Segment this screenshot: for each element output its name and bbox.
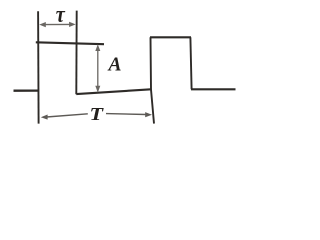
svg-text:τ: τ [56, 2, 66, 28]
dimension T: right arrowhead [145, 112, 152, 117]
dimension T: left shaft [47, 114, 88, 117]
dimension A: top arrowhead [95, 44, 100, 51]
wire: top of pulse 2 [150, 36, 191, 38]
wire: rising edge 2 / extension line (T right) [151, 37, 155, 123]
wire: left baseline of waveform [14, 89, 39, 91]
svg-text:A: A [107, 55, 122, 76]
dimension tau: right arrowhead [69, 22, 76, 27]
wire: falling edge 2 [190, 37, 191, 89]
wire: mid baseline between pulses [76, 89, 151, 94]
wire: top of pulse 1 extended for A dimension [36, 42, 104, 44]
dimension A: vertical shaft [97, 47, 99, 90]
dimension A: bottom arrowhead [95, 86, 100, 93]
wire: rising edge 1 / extension line (tau left, T left) [37, 11, 40, 123]
dimension T: left arrowhead [41, 115, 48, 120]
dimension tau: left arrowhead [39, 22, 46, 27]
wire: falling edge 1 / extension line (tau right) [75, 11, 77, 95]
dimension T: right shaft [106, 113, 146, 116]
dimension tau: shaft [43, 23, 72, 25]
svg-text:T: T [90, 104, 105, 124]
wire: right baseline of waveform [191, 88, 236, 90]
